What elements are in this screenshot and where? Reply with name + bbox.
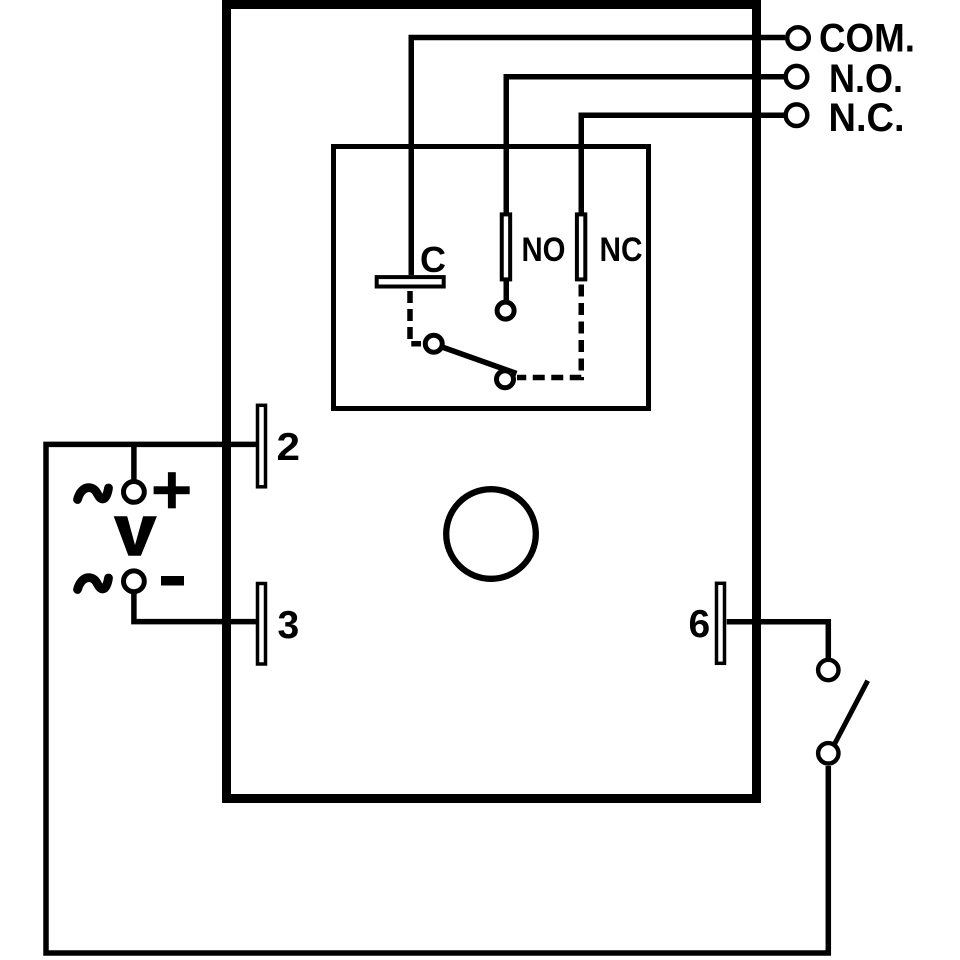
svg-text:COM.: COM.: [819, 17, 915, 61]
svg-text:3: 3: [278, 604, 300, 647]
svg-text:C: C: [420, 239, 446, 280]
svg-text:NC: NC: [600, 231, 643, 269]
svg-text:NO: NO: [522, 231, 566, 269]
svg-text:6: 6: [689, 603, 711, 646]
svg-text:N.O.: N.O.: [829, 57, 903, 101]
svg-text:2: 2: [277, 426, 301, 469]
svg-text:N.C.: N.C.: [829, 96, 905, 140]
